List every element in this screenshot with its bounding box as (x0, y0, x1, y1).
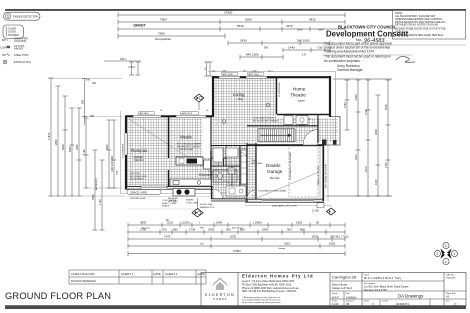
exterior wall: left section top (125, 115, 212, 117)
svg-text:5530: 5530 (237, 24, 244, 28)
elderton text cell (242, 274, 314, 304)
tile hatch: hall to garage (247, 143, 256, 199)
svg-text:7580: 7580 (158, 32, 165, 36)
svg-text:Planning and Assessment Act 1: Planning and Assessment Act 1979. (324, 50, 375, 54)
svg-text:865: 865 (300, 228, 305, 232)
svg-text:Carrington 28: Carrington 28 (332, 275, 357, 280)
svg-text:6350: 6350 (68, 146, 72, 152)
svg-text:CONCEALED STEEL BEAM: CONCEALED STEEL BEAM (289, 152, 292, 180)
svg-text:450 L: 450 L (120, 57, 127, 61)
exterior wall: home theatre right (329, 76, 331, 117)
svg-text:Garage: Garage (267, 169, 283, 174)
svg-text:Rumpus/Meals: Rumpus/Meals (155, 38, 172, 41)
pantry strip walls (210, 117, 212, 186)
svg-text:Double: Double (266, 163, 281, 168)
hall-garage door arc (247, 190, 256, 199)
svg-text:FEED TO REF: FEED TO REF (162, 203, 177, 205)
svg-text:Home: Home (293, 87, 306, 92)
bbq bench below wall (173, 189, 195, 197)
svg-text:2x 670 CAVITY SLDR: 2x 670 CAVITY SLDR (253, 117, 274, 120)
svg-text:Kitchen: Kitchen (199, 172, 212, 177)
svg-text:60 STEPDOWN: 60 STEPDOWN (279, 82, 281, 97)
svg-text:Drawn: Drawn (332, 293, 338, 295)
svg-text:ABN: 39 138 473 992 Buildi: ABN: 39 138 473 992 Building Licence: 21… (242, 290, 297, 293)
svg-text:900: 900 (82, 99, 85, 104)
exterior wall: top of living/home theatre (212, 76, 331, 78)
svg-text:JB: JB (346, 302, 349, 306)
dim line 17900 (118, 14, 345, 16)
stair arrow (260, 134, 288, 136)
svg-text:2430: 2430 (240, 39, 247, 43)
svg-text:AWT 1804: AWT 1804 (249, 73, 260, 76)
notes box (393, 11, 466, 40)
svg-text:1060 120 2060: 1060 120 2060 (111, 155, 114, 172)
main title block (201, 273, 466, 307)
garage gutter line (327, 143, 329, 202)
window tag boxes top (138, 72, 264, 115)
pantry cells (213, 148, 223, 162)
garage bottom wall (245, 199, 331, 206)
north arrow bottom (192, 198, 203, 217)
svg-text:S: S (7, 15, 9, 19)
legend lift off hinges (1, 45, 25, 51)
svg-text:CONCEALED STEEL BEAM: CONCEALED STEEL BEAM (258, 190, 286, 193)
svg-text:2400: 2400 (262, 228, 269, 232)
window living 2 (246, 76, 267, 78)
svg-text:ELDERTON: ELDERTON (205, 293, 235, 297)
svg-text:CLIENT 1: CLIENT 1 (121, 272, 134, 276)
interior wall rumpus/meals (168, 117, 170, 158)
svg-text:3850: 3850 (140, 221, 147, 225)
entry wall (317, 114, 319, 143)
svg-text:Meals: Meals (180, 135, 193, 140)
smoke detector circles (222, 120, 226, 124)
svg-text:2800: 2800 (54, 139, 58, 145)
svg-text:7470: 7470 (164, 235, 171, 239)
stair wall (247, 125, 318, 127)
svg-text:HINGES: HINGES (14, 48, 24, 51)
dp step box garage corner (317, 203, 324, 208)
svg-text:3600: 3600 (106, 144, 109, 150)
svg-text:Rumpus: Rumpus (142, 227, 151, 229)
svg-text:1740: 1740 (189, 228, 196, 232)
svg-text:CENTRE SLAB: CENTRE SLAB (130, 197, 146, 200)
svg-text:PROVIDE: PROVIDE (130, 173, 140, 175)
svg-text:2400: 2400 (208, 228, 215, 232)
svg-text:C: C (454, 302, 457, 306)
svg-text:AWT 1806: AWT 1806 (223, 73, 234, 76)
dark wall stubs (210, 151, 212, 186)
interior wall living/home theatre (276, 78, 278, 114)
svg-text:240: 240 (86, 79, 91, 82)
svg-text:Client:: Client: (364, 273, 370, 276)
laundry tub (228, 168, 235, 174)
rear door arc (213, 189, 223, 199)
svg-text:PANEL LIFT DOOR: PANEL LIFT DOOR (317, 165, 320, 185)
svg-text:CONC. PAD: CONC. PAD (186, 201, 198, 204)
svg-text:LOCATION: LOCATION (14, 40, 26, 43)
svg-text:905: 905 (226, 228, 231, 232)
kitchen island (176, 157, 203, 165)
svg-text:CEILING: CEILING (134, 159, 144, 162)
garage wall inner face (319, 145, 321, 198)
eaves line left (120, 111, 122, 194)
svg-text:SPACE: SPACE (162, 205, 170, 208)
garage door opening (262, 200, 314, 202)
svg-text:Sheet: Sheet (364, 300, 370, 303)
svg-text:SETDOWN: SETDOWN (251, 163, 263, 165)
dim line 5530 (118, 28, 345, 30)
svg-text:90: 90 (316, 221, 320, 225)
elderton logo cell (205, 278, 235, 302)
dim line 7580/5280/4810 (118, 21, 345, 23)
svg-text:LOH: LOH (1, 45, 7, 49)
svg-text:DELAYED: DELAYED (168, 197, 178, 200)
svg-text:9630: 9630 (61, 144, 65, 150)
exterior wall: living left (212, 76, 214, 117)
svg-text:SMOKE DETECTOR: SMOKE DETECTOR (13, 14, 38, 18)
svg-text:4730: 4730 (364, 109, 368, 115)
window top-left AW1806 (133, 115, 161, 117)
svg-text:DATE: DATE (154, 272, 161, 276)
tiny dims above top wall (160, 71, 274, 113)
svg-text:1060: 1060 (117, 169, 119, 175)
svg-text:Mr D.J. Griffiths & Ms R.J. Tr: Mr D.J. Griffiths & Ms R.J. Tracy (364, 276, 402, 280)
svg-text:3: 3 (436, 252, 438, 256)
svg-text:not be used or reproduced with: not be used or reproduced without permis… (242, 301, 281, 304)
svg-text:17+8C: 17+8C (312, 210, 319, 213)
svg-text:CAD File:: CAD File: (446, 273, 455, 276)
svg-text:HEATER POS.: HEATER POS. (200, 206, 215, 209)
svg-text:4810: 4810 (309, 18, 316, 22)
svg-text:230 910 | 7110: 230 910 | 7110 (330, 235, 349, 239)
svg-text:ALFRESCO: ALFRESCO (95, 178, 98, 190)
tile hatch: rumpus/meals/kitchen area (127, 118, 247, 187)
left leader lines (48, 79, 126, 197)
svg-text:1740: 1740 (98, 199, 102, 205)
pantry shelves (213, 150, 222, 156)
svg-text:5020: 5020 (312, 235, 319, 239)
svg-text:EXHAUST FAN: EXHAUST FAN (14, 61, 31, 64)
svg-text:Rumpus: Rumpus (131, 148, 148, 153)
svg-text:ASW 2124: ASW 2124 (182, 112, 193, 115)
client sign off table (69, 270, 206, 284)
svg-text:2420: 2420 (318, 29, 324, 32)
wall hall right side (246, 143, 248, 202)
svg-text:2030: 2030 (230, 235, 237, 239)
ticks (118, 13, 345, 39)
sheet bottom border band (5, 306, 466, 309)
legend note badge (3, 25, 24, 39)
svg-text:1950: 1950 (296, 221, 303, 225)
stairs (258, 129, 295, 142)
development consent stamp (322, 25, 466, 72)
garage diagonal (257, 172, 319, 198)
svg-text:BOOKSHELF: BOOKSHELF (130, 179, 144, 181)
laundry walls (211, 157, 226, 159)
svg-text:HOT BBQ: HOT BBQ (168, 201, 178, 203)
svg-text:Rev: Rev (446, 301, 450, 303)
svg-text:970: 970 (162, 228, 167, 232)
svg-text:DETAILED OR AS NOTED ON PLAN: DETAILED OR AS NOTED ON PLAN (395, 23, 438, 27)
left mini dims near wall (107, 120, 117, 188)
svg-text:1806DT: 1806DT (133, 23, 147, 27)
svg-text:WIP: WIP (200, 227, 205, 229)
svg-text:GRACE YARD: GRACE YARD (130, 190, 147, 194)
svg-text:450: 450 (92, 82, 97, 85)
svg-text:Hall: Hall (200, 244, 204, 246)
tile hatch: entry/stair strip (247, 118, 318, 143)
legend smoke detector (4, 12, 41, 20)
svg-text:450: 450 (90, 115, 95, 118)
marker garage bottom (312, 208, 336, 215)
top-left corner dim (82, 79, 87, 126)
garage top wall (247, 144, 323, 146)
svg-text:Garage Left Hand: Garage Left Hand (332, 287, 352, 290)
svg-text:1780: 1780 (82, 149, 86, 155)
svg-text:STEEL POST: STEEL POST (14, 54, 29, 57)
bench right wall (241, 150, 247, 184)
svg-text:Living: Living (233, 92, 245, 97)
sheet top border (5, 9, 466, 11)
legend steel post (2, 53, 29, 57)
svg-text:carpet: carpet (298, 100, 305, 103)
svg-text:H1500374: H1500374 (396, 302, 409, 306)
svg-text:DA/CDC DRAWING: DA/CDC DRAWING (71, 279, 96, 283)
svg-text:5kw slab: 5kw slab (270, 177, 280, 180)
svg-text:75mm: 75mm (251, 160, 257, 162)
fridge space (204, 160, 211, 169)
legend exhaust fan (3, 60, 31, 64)
bottom wall left section (125, 186, 213, 189)
svg-text:ELECTRICAL & WATER: ELECTRICAL & WATER (177, 143, 201, 146)
svg-text:CLIENT 2: CLIENT 2 (165, 272, 178, 276)
door arcs pantry (218, 158, 226, 166)
svg-text:H1500374: H1500374 (446, 278, 456, 280)
eaves line bottom left section (121, 193, 243, 195)
legend down pipe (2, 37, 28, 43)
white laundry cell (227, 147, 238, 157)
powder cells below HT (284, 116, 293, 125)
svg-text:17900: 17900 (233, 249, 241, 253)
svg-text:for construction purposes.: for construction purposes. (324, 59, 361, 63)
svg-text:900MM: 900MM (186, 200, 193, 202)
bottom wall stacker door opening (141, 186, 167, 189)
svg-text:900: 900 (287, 228, 292, 232)
kitchen bench bottom (170, 179, 211, 186)
svg-text:2: 2 (445, 244, 447, 248)
svg-text:5280: 5280 (245, 18, 252, 22)
svg-text:Elderton Homes Pty Ltd: Elderton Homes Pty Ltd (242, 274, 314, 279)
svg-text:1520: 1520 (329, 242, 336, 246)
svg-text:Job No: Job No (382, 301, 389, 303)
svg-text:Garage: Garage (278, 247, 286, 250)
svg-text:5000: 5000 (384, 104, 388, 110)
tile hatch: pantry strip (211, 145, 247, 199)
svg-text:950: 950 (173, 228, 178, 232)
svg-text:2400: 2400 (216, 221, 223, 225)
svg-text:DP =: DP = (2, 38, 9, 42)
svg-text:METER BOX CONDUIT: METER BOX CONDUIT (177, 146, 201, 148)
svg-text:CLIENT SIGN OFF: CLIENT SIGN OFF (71, 272, 95, 276)
svg-text:1440: 1440 (288, 46, 295, 50)
svg-text:HOMES: HOMES (214, 298, 228, 301)
exterior wall: garage right (322, 143, 324, 201)
svg-text:2740: 2740 (384, 162, 388, 168)
svg-text:240 L: 240 L (268, 71, 274, 73)
svg-text:17900: 17900 (224, 11, 233, 15)
grace yard box (127, 190, 161, 195)
right cluster small dims (228, 42, 330, 44)
svg-text:BLOCKING FOR: BLOCKING FOR (130, 176, 147, 178)
svg-text:7580: 7580 (160, 18, 167, 22)
svg-text:9110: 9110 (284, 242, 290, 246)
svg-text:240 1060: 240 1060 (297, 39, 310, 43)
svg-text:930: 930 (264, 47, 269, 50)
dim line rumpus/meals (118, 35, 225, 37)
wall x211 lower (211, 186, 213, 199)
svg-text:DA Drawings: DA Drawings (398, 294, 424, 299)
ceiling rake diagonal (129, 119, 231, 185)
svg-text:GROUND FLOOR PLAN: GROUND FLOOR PLAN (5, 291, 111, 301)
svg-text:Bom Bend: Bom Bend (232, 227, 243, 229)
diamond marker D top (194, 94, 204, 110)
svg-text:UNDER SLAB: UNDER SLAB (179, 148, 194, 151)
svg-text:5980: 5980 (91, 194, 95, 200)
mid strip bottom wall (211, 199, 247, 202)
svg-text:3470: 3470 (354, 154, 358, 160)
svg-text:MC 900 SQ SET OPENING: MC 900 SQ SET OPENING (253, 120, 279, 122)
svg-text:4470: 4470 (286, 24, 293, 28)
garage dashed roofline (289, 146, 318, 197)
client cell (362, 273, 444, 306)
svg-text:1800: 1800 (374, 129, 378, 135)
left wall window (125, 133, 127, 155)
svg-text:L1020 L: L1020 L (181, 221, 192, 225)
svg-text:SECTIONAL O/H DOOR: SECTIONAL O/H DOOR (325, 164, 328, 188)
porch column (322, 140, 327, 146)
svg-text:Theatre: Theatre (290, 93, 306, 98)
laundry bench lower (226, 186, 246, 196)
exterior wall: left (125, 116, 127, 189)
revision cell (444, 273, 466, 306)
svg-text:AW 1806: AW 1806 (140, 112, 150, 115)
porch outer edge (324, 117, 340, 146)
svg-text:General Manager: General Manager (337, 68, 364, 72)
eaves line top living (208, 71, 336, 73)
svg-text:5470: 5470 (364, 166, 368, 172)
svg-text:2106 STACKER: 2106 STACKER (122, 143, 125, 158)
svg-text:2540: 2540 (75, 144, 79, 150)
window top ASW2124 (176, 115, 206, 117)
svg-text:1410: 1410 (297, 29, 303, 32)
tile hatch: living (213, 78, 277, 118)
home theatre bottom wall (277, 114, 330, 116)
svg-text:2450: 2450 (354, 94, 358, 100)
svg-text:Lot 505 John Black Drive, Elar: Lot 505 John Black Drive, Elara Estate (364, 284, 409, 288)
svg-text:1100: 1100 (374, 179, 378, 185)
svg-text:3.5s: 3.5s (317, 46, 323, 50)
eaves line right (335, 72, 337, 144)
carrington cell (330, 275, 362, 307)
svg-text:M.F.P.: M.F.P. (332, 295, 339, 299)
window living 1 (219, 76, 240, 78)
svg-text:1440: 1440 (343, 102, 347, 108)
svg-text:tiling: tiling (238, 98, 244, 101)
entry door arc (303, 130, 318, 146)
svg-text:940 1380: 940 1380 (246, 53, 259, 57)
svg-text:14/08/16: 14/08/16 (346, 295, 357, 299)
svg-text:5 R: 5 R (302, 54, 306, 57)
alfresco paving edge (127, 196, 210, 198)
svg-text:4800 PANEL LIFT DOOR: 4800 PANEL LIFT DOOR (272, 205, 297, 208)
svg-text:1: 1 (453, 252, 455, 256)
svg-text:FLUED GAS: FLUED GAS (200, 203, 213, 206)
top mini dim near living left (104, 61, 213, 76)
garage left wall (255, 143, 257, 199)
tile hatch: porch (318, 118, 338, 143)
svg-text:1:100: 1:100 (332, 302, 339, 306)
svg-text:SP: SP (2, 53, 6, 57)
wc (218, 173, 223, 179)
svg-text:SHOWER: SHOWER (8, 34, 19, 37)
svg-text:4: 4 (445, 260, 447, 264)
svg-text:17875: 17875 (47, 132, 51, 140)
svg-text:| 1080 |: | 1080 | (253, 221, 263, 225)
white hall corridor (203, 119, 212, 158)
